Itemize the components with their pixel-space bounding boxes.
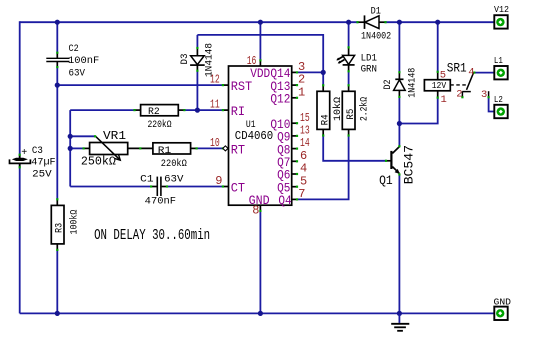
- svg-text:BC547: BC547: [402, 145, 417, 184]
- junction top rail VDD: [258, 20, 263, 25]
- wire IC pin 7 Q4 to R5 bottom: [297, 136, 348, 200]
- junction GND rail ground symbol: [397, 311, 402, 316]
- svg-text:RST: RST: [231, 79, 253, 94]
- resistor R4: [317, 84, 330, 136]
- diode D1 1N4002: [356, 15, 386, 29]
- svg-text:2: 2: [456, 88, 462, 100]
- svg-text:GND: GND: [494, 297, 512, 307]
- resistor R3: [51, 198, 64, 251]
- wire RI corner to R2 left: [70, 109, 134, 111]
- terminal GND: [494, 307, 507, 320]
- svg-text:220kΩ: 220kΩ: [161, 158, 187, 170]
- junction top rail C2: [55, 20, 60, 25]
- wire junction down to R4 top: [322, 72, 324, 85]
- svg-text:R3: R3: [55, 223, 66, 233]
- junction GND rail pin8: [258, 311, 263, 316]
- wire left rail upper (to C3): [19, 21, 21, 158]
- svg-text:63V: 63V: [164, 174, 183, 185]
- terminal V12: [494, 15, 507, 28]
- wire D3 bottom to RI node: [196, 71, 198, 110]
- svg-text:470nF: 470nF: [145, 197, 176, 208]
- svg-text:V12: V12: [494, 5, 509, 15]
- svg-text:D3: D3: [180, 54, 191, 65]
- svg-text:GRN: GRN: [361, 64, 377, 75]
- wire VDD pin 16 up to rail: [259, 22, 261, 60]
- wire relay pin1 down to collector node: [399, 98, 437, 124]
- svg-text:1N4148: 1N4148: [407, 68, 418, 98]
- junction Q14 R4 node: [321, 70, 326, 75]
- svg-text:R4: R4: [320, 114, 331, 125]
- svg-text:Q12: Q12: [270, 92, 290, 107]
- wire C2 top stub: [56, 22, 58, 52]
- svg-text:25V: 25V: [32, 169, 52, 180]
- junction D3 RI node: [195, 108, 200, 113]
- LED LD1 GRN: [336, 46, 354, 72]
- ground symbol: [391, 313, 409, 330]
- wire left rail lower (C3 to GND rail): [19, 164, 21, 314]
- svg-text:10: 10: [210, 136, 220, 150]
- junction collector node: [397, 121, 402, 126]
- svg-text:8: 8: [252, 203, 259, 217]
- diode D3 1N4148: [190, 47, 205, 72]
- svg-text:12V: 12V: [432, 81, 447, 91]
- svg-text:1: 1: [298, 85, 305, 99]
- svg-text:100nF: 100nF: [68, 56, 99, 67]
- svg-text:C1: C1: [140, 174, 153, 185]
- wire GND pin 8 down to rail: [259, 211, 261, 314]
- wire VR1 left to node: [70, 147, 83, 149]
- svg-text:L2: L2: [494, 95, 503, 105]
- junction top rail relay: [435, 20, 440, 25]
- relay switch contact: [450, 72, 489, 99]
- svg-text:CD4060: CD4060: [235, 129, 273, 143]
- capacitor C1: [150, 177, 168, 196]
- svg-text:SR1: SR1: [447, 61, 467, 76]
- svg-text:RI: RI: [231, 104, 245, 119]
- wire switch pin3 to L2: [489, 97, 495, 111]
- svg-text:RT: RT: [231, 142, 245, 157]
- wire RI corner down VR1 node: [69, 110, 71, 186]
- svg-text:16: 16: [247, 54, 257, 68]
- wire CT node to C1 left: [70, 186, 151, 188]
- wire switch pin4 to L1: [474, 72, 495, 74]
- wire top rail V12 left segment: [20, 21, 358, 23]
- wire D2 bottom to collector node: [398, 97, 400, 124]
- resistor R5: [342, 84, 355, 136]
- relay SR1 coil: [424, 71, 450, 99]
- capacitor C2: [46, 52, 69, 69]
- wire LED top to rail: [348, 22, 350, 47]
- transistor Q1 BC547: [385, 145, 401, 175]
- wire IC pin 3 to junction: [297, 71, 323, 73]
- wire relay pin5 to rail: [437, 22, 439, 72]
- wire Q1 emitter to GND rail: [398, 175, 400, 314]
- IC pin stubs right: [292, 71, 298, 200]
- IC pin 16 stub: [259, 59, 261, 66]
- wire D3 to Q14 horizontal: [197, 35, 323, 73]
- junction GND rail R3: [55, 311, 60, 316]
- IC pin 8 stub: [259, 205, 261, 212]
- potentiometer VR1: [83, 135, 153, 160]
- svg-text:100kΩ: 100kΩ: [69, 210, 81, 235]
- wire C2 bottom to RST node: [56, 67, 58, 85]
- junction VR1 left node: [68, 146, 73, 151]
- wire bottom GND rail: [20, 312, 496, 314]
- svg-text:C2: C2: [69, 44, 79, 55]
- terminal L1: [494, 66, 507, 79]
- op IC U1 CD4060 box: [229, 66, 292, 205]
- svg-text:11: 11: [210, 98, 220, 112]
- svg-text:D1: D1: [371, 7, 381, 18]
- svg-text:1N4002: 1N4002: [361, 32, 391, 43]
- svg-text:1: 1: [441, 94, 447, 106]
- svg-text:2.2kΩ: 2.2kΩ: [358, 97, 370, 121]
- svg-text:D2: D2: [383, 80, 394, 90]
- svg-text:R2: R2: [148, 107, 160, 118]
- svg-text:3: 3: [481, 89, 487, 101]
- wire D2 top: [398, 22, 400, 72]
- svg-text:250kΩ: 250kΩ: [81, 155, 116, 169]
- svg-text:1N4148: 1N4148: [205, 43, 216, 77]
- svg-text:R1: R1: [158, 146, 171, 157]
- svg-text:63V: 63V: [69, 68, 86, 79]
- wire RST node down to R3: [56, 85, 58, 199]
- svg-text:7: 7: [298, 187, 305, 201]
- wire collector node to Q1 collector: [398, 124, 400, 147]
- wire R3 bottom to GND rail: [56, 250, 58, 314]
- svg-text:R5: R5: [346, 109, 357, 120]
- svg-text:+: +: [21, 148, 27, 159]
- wire D3 top: [196, 35, 198, 48]
- wire R5 top to LED: [348, 71, 350, 85]
- junction VR1 wiper node: [68, 134, 73, 139]
- resistor R1: [153, 143, 198, 154]
- svg-text:5: 5: [440, 70, 446, 82]
- resistor R2: [133, 105, 185, 116]
- svg-text:4: 4: [468, 66, 474, 78]
- svg-text:VDD: VDD: [250, 66, 270, 81]
- svg-text:ON DELAY 30..60min: ON DELAY 30..60min: [94, 228, 210, 244]
- wire VR1 wiper to node: [70, 135, 95, 137]
- wire top rail V12 right segment after D1: [386, 21, 496, 23]
- svg-text:47µF: 47µF: [31, 158, 55, 169]
- wire RST node to IC pin 12: [57, 84, 223, 86]
- IC pin stubs left: [222, 84, 229, 188]
- svg-text:220kΩ: 220kΩ: [148, 119, 172, 131]
- svg-text:VR1: VR1: [103, 129, 126, 143]
- wire R2 right to IC pin 11: [184, 109, 223, 111]
- svg-text:L1: L1: [494, 56, 503, 66]
- svg-text:CT: CT: [231, 180, 245, 195]
- svg-text:LD1: LD1: [361, 54, 377, 65]
- diode D2 1N4148: [394, 71, 406, 98]
- terminal L2: [494, 105, 507, 118]
- wire C1 right to IC pin 9: [167, 186, 223, 188]
- junction top rail LED: [346, 20, 351, 25]
- junction top rail D2: [397, 20, 402, 25]
- wire R4 bottom to base corner: [323, 136, 386, 161]
- wire R1 right to IC pin 10: [197, 147, 223, 149]
- svg-text:Q4: Q4: [278, 193, 291, 208]
- junction RST node: [55, 83, 60, 88]
- svg-text:C3: C3: [32, 146, 43, 157]
- capacitor C3 polarized: [10, 154, 31, 169]
- svg-text:Q1: Q1: [379, 173, 393, 188]
- svg-text:9: 9: [215, 174, 222, 188]
